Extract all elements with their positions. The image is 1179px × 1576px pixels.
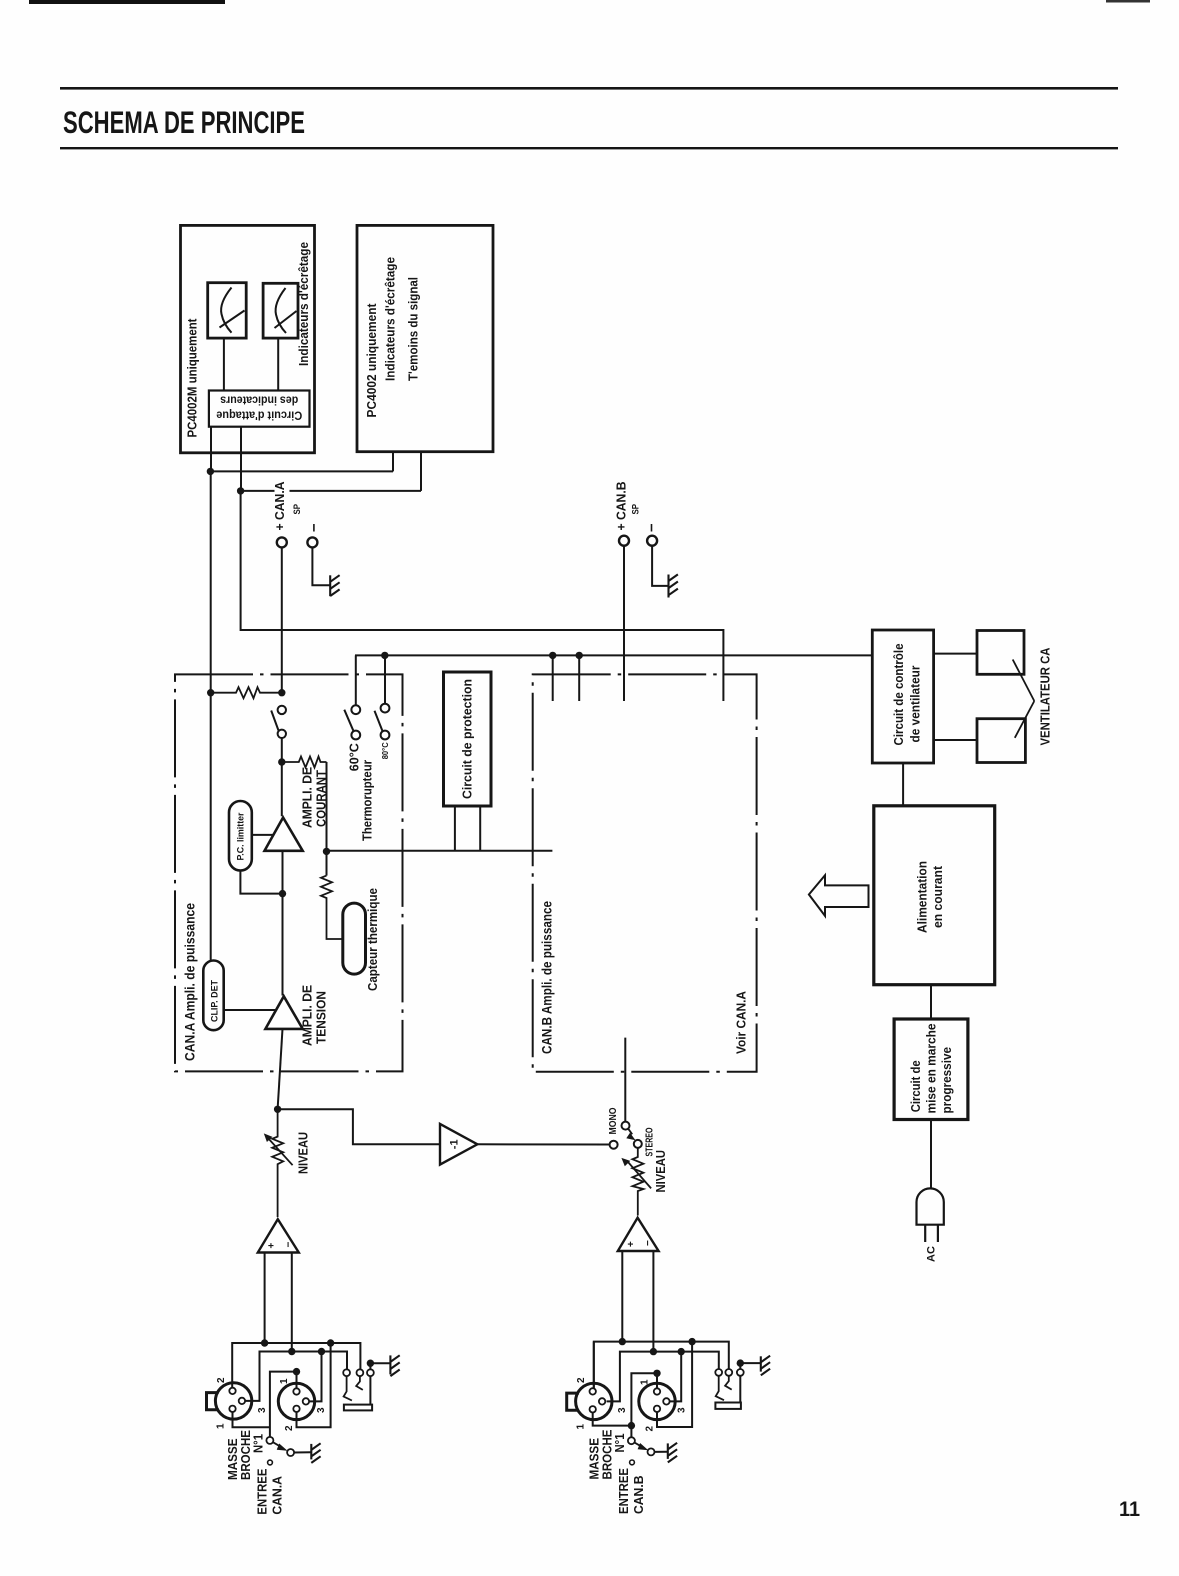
svg-text:2: 2 <box>576 1377 587 1383</box>
wire hot bus line1 B <box>594 1342 729 1388</box>
node dot <box>288 1348 295 1355</box>
meter M1 <box>208 283 247 338</box>
fan motor 2 <box>977 719 1025 763</box>
node dot <box>653 1370 660 1377</box>
connector XLR A1 (female) <box>215 1383 251 1419</box>
potentiometer NIVEAU A <box>272 1109 283 1217</box>
jack contact springs <box>344 1376 352 1400</box>
svg-text:T'emoins du signal: T'emoins du signal <box>406 277 421 381</box>
wire cold bus line2 <box>245 1352 347 1401</box>
wire line1 to XLR2 pin2 <box>297 1343 331 1427</box>
box Circuit de protection <box>444 672 492 806</box>
wire to fan 2 <box>934 739 977 741</box>
wire driver out right <box>240 427 242 491</box>
svg-text:NIVEAU: NIVEAU <box>653 1150 668 1193</box>
wire stub into CAN.B <box>578 655 580 701</box>
node dot <box>261 1339 268 1346</box>
wire XLR B1 pin2 up <box>593 1342 595 1389</box>
wire +B down (stub into CAN.B box) <box>623 546 625 701</box>
node dot <box>628 1422 635 1429</box>
wire line1 to XLR B2 pin2 <box>657 1342 692 1427</box>
svg-text:−: − <box>284 1242 295 1248</box>
chassis ground B-sw <box>668 1443 677 1463</box>
connector XLR A2 (male) <box>278 1383 314 1419</box>
svg-text:VENTILATEUR CA: VENTILATEUR CA <box>1038 647 1053 746</box>
wire switch to chassis <box>655 1451 668 1453</box>
svg-text:Circuit de protection: Circuit de protection <box>460 679 475 799</box>
node dot <box>576 652 583 659</box>
wire hot bus line1 <box>232 1343 360 1388</box>
svg-text:en courant: en courant <box>930 865 945 928</box>
svg-text:3: 3 <box>316 1407 327 1413</box>
node dot <box>274 1106 281 1113</box>
label minus <box>313 524 315 532</box>
wire to inverter <box>278 1109 440 1144</box>
svg-text:2: 2 <box>216 1377 227 1383</box>
wire line2 to XLR B2 pin3 <box>670 1352 681 1402</box>
wire input- down <box>652 1251 654 1352</box>
terminal - CAN.B <box>647 536 657 546</box>
svg-text:−: − <box>643 1240 654 1246</box>
svg-text:Indicateurs d'écrêtage: Indicateurs d'écrêtage <box>383 257 398 381</box>
svg-text:Alimentation: Alimentation <box>915 861 930 933</box>
node dot <box>207 468 214 475</box>
wire XLR A1 pin1 to switch <box>233 1412 270 1427</box>
wire PC4002 out left <box>392 452 394 472</box>
wire M1 to driver box <box>223 338 225 390</box>
svg-text:Circuit de: Circuit de <box>909 1060 923 1112</box>
svg-text:+ CAN.B: + CAN.B <box>614 482 629 531</box>
node dot <box>318 1348 325 1355</box>
wire protection stub left <box>454 806 456 851</box>
op-amp AMPLI DE COURANT <box>265 818 303 851</box>
wire control to power supply <box>902 763 904 806</box>
node dot <box>279 890 286 897</box>
node dot <box>678 1348 685 1355</box>
node dot <box>381 652 388 659</box>
wire courant out <box>282 851 284 996</box>
svg-text:des indicateurs: des indicateurs <box>220 394 298 406</box>
thermo switch 80C <box>384 655 386 703</box>
chassis ground A-SP <box>330 575 339 596</box>
node dot <box>650 1348 657 1355</box>
resistor R3 (vertical) <box>321 876 343 939</box>
node dot <box>293 1368 300 1375</box>
svg-text:SP: SP <box>292 503 303 514</box>
wire mono stub <box>624 1038 626 1122</box>
box PC4002M uniquement <box>181 225 315 452</box>
svg-text:CAN.B: CAN.B <box>631 1476 646 1515</box>
svg-text:1: 1 <box>640 1379 651 1385</box>
wire -B to ground <box>652 546 668 586</box>
enclosure CAN.B (dash-dot) <box>533 674 757 1071</box>
fan blades <box>1013 660 1035 702</box>
wire input+ down <box>621 1251 623 1342</box>
node dot <box>278 689 285 696</box>
svg-text:N°1: N°1 <box>251 1434 266 1453</box>
svg-text:SCHEMA DE PRINCIPE: SCHEMA DE PRINCIPE <box>63 104 305 140</box>
wire PC4002 out right <box>420 452 422 491</box>
wire supply to soft start <box>930 985 932 1019</box>
svg-text:progressive: progressive <box>940 1047 954 1114</box>
rule below title <box>60 147 1118 149</box>
svg-text:CAN.B Ampli. de puissance: CAN.B Ampli. de puissance <box>540 901 555 1054</box>
resistor R1 <box>211 687 282 698</box>
jack body <box>344 1405 372 1411</box>
wire R2 down to protection bus <box>326 762 328 876</box>
rule above title <box>60 87 1118 90</box>
wire protection stub right <box>479 806 481 851</box>
arrow power out <box>809 875 869 916</box>
svg-text:ENTREE: ENTREE <box>255 1468 270 1514</box>
chassis ground B-jack <box>761 1356 770 1376</box>
jack sleeve <box>739 1376 741 1403</box>
svg-text:CAN.A Ampli. de puissance: CAN.A Ampli. de puissance <box>183 903 198 1061</box>
label + CAN.A <box>275 480 290 532</box>
phone jack A <box>343 1369 350 1376</box>
node dot protection tee <box>323 848 330 855</box>
jack sleeve <box>369 1376 371 1405</box>
svg-text:mise en marche: mise en marche <box>925 1023 939 1113</box>
node dot <box>619 1338 626 1345</box>
svg-text:PC4002M uniquement: PC4002M uniquement <box>186 318 200 438</box>
svg-text:+ CAN.A: + CAN.A <box>272 481 287 531</box>
svg-text:1: 1 <box>576 1424 587 1430</box>
wire M2 to driver box <box>277 338 279 390</box>
node dot <box>278 758 285 765</box>
svg-text:2: 2 <box>284 1425 295 1431</box>
svg-text:SP: SP <box>631 503 642 514</box>
svg-text:N°1: N°1 <box>612 1434 627 1453</box>
wire input- down <box>291 1253 293 1352</box>
wire -A to ground <box>312 547 330 585</box>
wire jack sleeve to chassis <box>370 1362 390 1364</box>
Capteur thermique block <box>343 903 366 974</box>
svg-text:Voir CAN.A: Voir CAN.A <box>734 990 749 1054</box>
node dot <box>237 487 244 494</box>
svg-text:11: 11 <box>1119 1498 1140 1521</box>
jack body <box>715 1403 741 1409</box>
wire input+ down <box>264 1253 266 1344</box>
wire switch to chassis <box>294 1451 311 1453</box>
svg-text:+: + <box>626 1241 637 1247</box>
switch MASSE BROCHE A <box>266 1437 273 1444</box>
wire XLR A2 pin1 to ground switch <box>270 1372 297 1437</box>
switch MASSE BROCHE B <box>628 1437 635 1444</box>
box PC4002 uniquement <box>357 225 493 451</box>
svg-text:AMPLI. DE: AMPLI. DE <box>300 985 315 1046</box>
svg-text:P.C. limitter: P.C. limitter <box>236 812 246 860</box>
box Circuit d'attaque des indicateurs <box>209 391 310 427</box>
wire bus y471 <box>210 470 393 472</box>
svg-text:3: 3 <box>257 1407 268 1413</box>
wire jack sleeve to chassis <box>740 1362 761 1364</box>
phone jack B <box>715 1369 722 1376</box>
node dot <box>549 652 556 659</box>
terminal + CAN.B <box>619 536 629 546</box>
op-amp input A <box>258 1219 299 1252</box>
chassis ground B-SP <box>669 574 678 597</box>
thermo switch 60C <box>355 655 357 705</box>
wire second vertical down then right <box>241 491 724 701</box>
wire protection bus y851 <box>327 850 553 852</box>
wire thermo bus y655 <box>355 654 872 656</box>
svg-text:-1: -1 <box>449 1139 461 1149</box>
wire XLR B2 pin1 to ground switch <box>631 1373 657 1437</box>
svg-text:Thermorupteur: Thermorupteur <box>360 760 375 841</box>
switch S1 (output relay) <box>278 706 286 714</box>
svg-text:TENSION: TENSION <box>314 991 329 1044</box>
jack contact springs <box>716 1376 724 1400</box>
wire inverter out <box>477 1143 609 1145</box>
wire clip det to tension amp <box>224 1009 276 1011</box>
chassis ground A-sw <box>311 1443 320 1463</box>
svg-text:Capteur thermique: Capteur thermique <box>365 888 380 991</box>
enclosure CAN.A (dash-dot) <box>175 674 403 1071</box>
chassis ground A-jack <box>390 1355 399 1376</box>
wire PC limitter to courant amp <box>252 834 273 836</box>
op-amp AMPLI DE TENSION <box>265 996 302 1029</box>
svg-text:3: 3 <box>617 1407 628 1413</box>
CLIP.DET block <box>203 961 223 1031</box>
svg-text:de ventilateur: de ventilateur <box>908 666 923 743</box>
wire tension out down <box>278 1029 283 1109</box>
wire bus y491 <box>241 490 421 492</box>
wire stub into CAN.B <box>552 655 554 701</box>
svg-text:NIVEAU: NIVEAU <box>296 1132 311 1174</box>
potentiometer NIVEAU B <box>632 1148 643 1216</box>
svg-text:3: 3 <box>677 1407 688 1413</box>
top scan bar left <box>29 0 225 4</box>
svg-text:COURANT: COURANT <box>314 770 329 827</box>
svg-text:AMPLI. DE: AMPLI. DE <box>300 767 315 828</box>
inverter -1 <box>440 1124 477 1165</box>
wire PC limitter bottom <box>240 871 282 894</box>
svg-text:+: + <box>267 1243 278 1249</box>
wire cold bus line2 B <box>607 1352 719 1402</box>
terminal - CAN.A <box>307 537 317 547</box>
top scan bar right <box>1106 0 1150 3</box>
wire soft start to AC plug <box>930 1120 932 1189</box>
svg-text:1: 1 <box>279 1378 290 1384</box>
svg-text:CAN.A: CAN.A <box>270 1476 285 1515</box>
svg-text:AC: AC <box>926 1246 938 1262</box>
wire left vertical to resistor tee <box>210 471 212 960</box>
svg-text:Circuit de contrôle: Circuit de contrôle <box>891 644 906 746</box>
wire driver out left <box>210 427 212 472</box>
wire to fan 1 <box>934 653 977 655</box>
svg-text:PC4002 uniquement: PC4002 uniquement <box>364 303 379 418</box>
connector XLR B1 (female) <box>576 1383 612 1419</box>
wire XLR B1 pin1 to switch <box>593 1413 632 1426</box>
node dot <box>327 1339 334 1346</box>
svg-text:2: 2 <box>645 1426 656 1432</box>
svg-text:1: 1 <box>216 1423 227 1429</box>
svg-text:ENTREE: ENTREE <box>616 1468 631 1514</box>
resistor R2 <box>282 757 327 768</box>
svg-text:CLIP. DET: CLIP. DET <box>209 980 219 1022</box>
op-amp input B <box>618 1218 659 1251</box>
node dot resistor tee <box>207 689 214 696</box>
box Alimentation en courant <box>874 806 995 985</box>
P.C. limitter block <box>229 801 252 871</box>
label minus <box>651 524 653 532</box>
svg-text:Circuit d'attaque: Circuit d'attaque <box>216 409 302 421</box>
switch MONO/STEREO <box>610 1141 618 1149</box>
fan motor 1 <box>977 631 1024 675</box>
connector XLR B2 (male) <box>639 1383 675 1419</box>
svg-text:80°C: 80°C <box>380 742 390 759</box>
wire switch to resistor R2 tee <box>281 738 283 816</box>
meter M2 <box>263 283 298 338</box>
box Circuit de mise en marche progressive <box>894 1019 968 1120</box>
wire +A down <box>281 547 283 692</box>
node dot <box>688 1338 695 1345</box>
wire line2 to XLR2 pin3 <box>309 1352 321 1402</box>
box Circuit de controle de ventilateur <box>872 630 933 763</box>
svg-text:MONO: MONO <box>608 1107 619 1134</box>
terminal + CAN.A <box>277 537 287 547</box>
